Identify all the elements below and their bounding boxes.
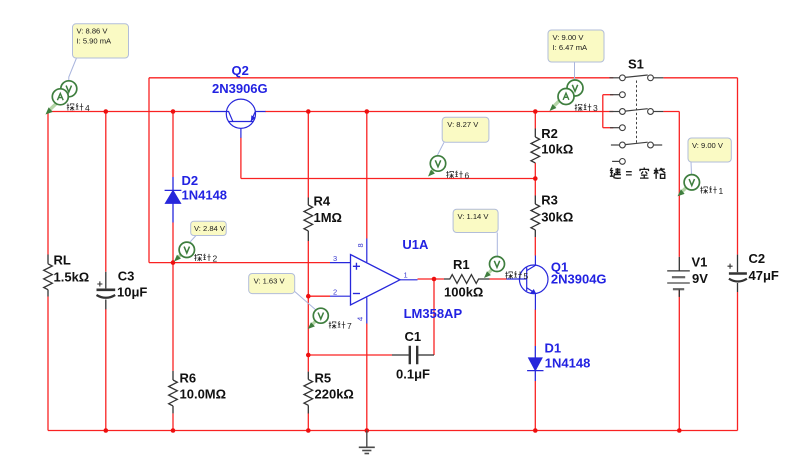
svg-text:C2: C2 <box>749 251 766 266</box>
wire op-amp pin4 to ground rail <box>366 324 368 431</box>
resistor RL <box>44 255 53 297</box>
svg-text:2: 2 <box>213 253 218 263</box>
svg-text:V: 8.27 V: V: 8.27 V <box>447 120 479 129</box>
svg-text:R3: R3 <box>541 193 558 208</box>
label probe name 探针2 <box>194 254 211 261</box>
svg-text:1N4148: 1N4148 <box>182 188 228 203</box>
resistor R1 <box>444 275 490 284</box>
svg-text:4: 4 <box>356 317 365 321</box>
svg-text:8: 8 <box>356 243 365 247</box>
resistor R3 <box>531 196 540 238</box>
wire D1 cathode to rail <box>534 381 536 431</box>
measurement box probe5 <box>453 209 498 232</box>
wire D2 anode to junction <box>172 223 174 263</box>
junction bottom rail R6 <box>171 428 176 433</box>
leader probe5 box <box>496 233 498 258</box>
pin 3 lead <box>330 262 351 264</box>
junction bottom rail ground <box>365 428 370 433</box>
wire top rail from S1 row1 to left corner <box>149 77 613 79</box>
diode D2 <box>165 177 182 223</box>
measurement box probe7 <box>249 274 295 294</box>
svg-text:V: 2.84 V: V: 2.84 V <box>194 224 226 233</box>
resistor R5 <box>304 372 313 414</box>
wire op-amp output to junction <box>418 278 445 280</box>
label key hint 键 = 空格 <box>610 168 665 179</box>
junction D2 top <box>171 109 176 114</box>
wire V1 branch bottom <box>678 290 680 431</box>
junction bottom rail R5 <box>306 428 311 433</box>
svg-text:2N3906G: 2N3906G <box>212 81 268 96</box>
label probe name 探针3 <box>575 104 592 111</box>
S1 row2 contact <box>610 94 620 96</box>
leader probe4 box <box>69 58 77 81</box>
S1 row6 contact <box>612 160 619 162</box>
svg-text:47μF: 47μF <box>749 268 779 283</box>
svg-text:0.1μF: 0.1μF <box>396 367 430 382</box>
wire pin2 horizontal <box>308 295 330 297</box>
junction R4 top <box>306 109 311 114</box>
wire main rail right portion y=111.5 <box>265 111 613 113</box>
leader probe2 box <box>188 236 196 245</box>
leader probe7 box <box>295 292 317 311</box>
svg-text:2: 2 <box>333 288 337 297</box>
wire left drop of top rail x=149 <box>148 78 150 263</box>
S1 row3 pole <box>610 111 620 113</box>
junction R2 top <box>533 109 538 114</box>
leader probe6 box <box>437 142 445 157</box>
wire S1 bracket vertical <box>602 95 604 128</box>
wire V1 branch top <box>678 112 680 257</box>
pin 8 lead <box>366 239 368 263</box>
svg-text:R2: R2 <box>541 126 558 141</box>
svg-text:9V: 9V <box>692 271 708 286</box>
battery V1 <box>667 257 690 297</box>
wire R5 top lead <box>307 355 309 372</box>
junction D2 anode / pin3 <box>171 260 176 265</box>
junction pin8 rail <box>365 109 370 114</box>
junction C3 top <box>104 109 109 114</box>
svg-text:1: 1 <box>719 186 724 196</box>
wire junction down to R6 <box>172 263 174 371</box>
pin 1 lead <box>400 279 418 281</box>
wire C1 right vertical feedback <box>433 279 435 355</box>
label probe name 探针5 <box>505 271 522 278</box>
switch S1 <box>610 75 664 164</box>
wire R6 bottom to rail <box>172 413 174 430</box>
svg-text:D1: D1 <box>545 341 562 356</box>
wire C3 branch top <box>105 112 107 272</box>
wire op-amp pin8 to rail <box>366 112 368 239</box>
S1 row5 pole <box>611 144 620 146</box>
svg-text:LM358AP: LM358AP <box>404 306 463 321</box>
resistor R4 <box>304 198 313 242</box>
leader probe3 box <box>574 62 576 80</box>
measurement box probe3 <box>548 30 604 62</box>
junction op-amp output node <box>432 277 437 282</box>
svg-text:R5: R5 <box>315 371 332 386</box>
wire C3 branch bottom <box>105 309 107 431</box>
svg-text:V: 8.86 V: V: 8.86 V <box>77 27 109 36</box>
svg-text:100kΩ: 100kΩ <box>444 285 483 300</box>
wire R2 top lead <box>534 112 536 129</box>
probe 探针7 (V) <box>308 308 329 329</box>
wire S1 row3 out <box>663 111 679 113</box>
measurement box probe1 <box>688 138 731 162</box>
diode D1 <box>527 346 543 381</box>
svg-text:V1: V1 <box>692 255 708 270</box>
wire Q2 base to R2-R3 node y=178.5 <box>241 178 535 180</box>
transistor Q1 <box>507 256 549 310</box>
probe 探针4 (V+A) <box>46 81 77 115</box>
svg-text:I: 5.90 mA: I: 5.90 mA <box>77 37 113 46</box>
wire main rail left portion y=111.5 <box>48 111 210 113</box>
svg-text:=: = <box>626 168 633 180</box>
wire R5 node horizontal to C1 <box>308 354 392 356</box>
S1 row1 pole <box>610 77 620 79</box>
label probe name 探针7 <box>329 321 346 328</box>
svg-text:30kΩ: 30kΩ <box>541 210 573 225</box>
svg-text:4: 4 <box>85 103 90 113</box>
svg-text:7: 7 <box>347 321 352 331</box>
wire R3 bottom to Q1 collector <box>534 237 536 256</box>
probe 探针6 (V) <box>428 156 446 177</box>
wire R4 bottom through pin2 node down to R5 node <box>307 241 309 355</box>
svg-text:3: 3 <box>333 254 337 263</box>
junction R5 top node <box>306 353 311 358</box>
svg-text:V: 9.00 V: V: 9.00 V <box>692 141 724 150</box>
svg-text:R6: R6 <box>180 371 197 386</box>
resistor R6 <box>169 371 178 414</box>
wire S1 row1 out to C2 branch <box>663 77 737 79</box>
svg-text:S1: S1 <box>628 57 644 72</box>
svg-text:1: 1 <box>404 271 408 280</box>
probe 探针3 (V+A) <box>550 80 584 111</box>
svg-text:220kΩ: 220kΩ <box>315 387 354 402</box>
wire bottom ground rail <box>48 430 738 432</box>
svg-text:RL: RL <box>54 253 71 268</box>
svg-text:V: 9.00 V: V: 9.00 V <box>553 33 585 42</box>
wire R5 bottom to rail <box>307 414 309 431</box>
svg-text:Q2: Q2 <box>232 63 249 78</box>
svg-text:V: 1.14 V: V: 1.14 V <box>458 212 490 221</box>
svg-text:3: 3 <box>593 103 598 113</box>
wire left branch RL bottom <box>47 297 49 431</box>
junction pin2 node <box>306 294 311 299</box>
op-amp U1A <box>330 239 418 324</box>
junction bottom rail C3 <box>104 428 109 433</box>
wire R3 top lead <box>534 179 536 196</box>
wire S1 bracket stub row4 <box>603 127 614 129</box>
svg-text:D2: D2 <box>182 173 199 188</box>
svg-text:2N3904G: 2N3904G <box>551 272 607 287</box>
junction bottom rail V1 <box>677 428 682 433</box>
svg-text:1N4148: 1N4148 <box>545 356 591 371</box>
wire D2 branch top <box>172 112 174 178</box>
wire C2 branch bottom <box>737 292 739 431</box>
capacitor C1 <box>392 346 434 364</box>
svg-text:10kΩ: 10kΩ <box>541 142 573 157</box>
S1 actuator dashed line <box>636 81 638 144</box>
svg-text:10.0MΩ: 10.0MΩ <box>180 387 227 402</box>
capacitor C3 <box>97 272 116 310</box>
transistor Q2 <box>210 99 266 138</box>
svg-text:C3: C3 <box>118 269 135 284</box>
measurement box probe6 <box>442 117 489 142</box>
svg-text:C1: C1 <box>405 329 422 344</box>
svg-text:1MΩ: 1MΩ <box>314 210 342 225</box>
wire Q2 base down <box>240 138 242 179</box>
wire C2 branch top <box>737 78 739 255</box>
svg-text:U1A: U1A <box>402 237 429 252</box>
junction bottom rail D1 <box>533 428 538 433</box>
wire S1 bracket stub row2 <box>603 94 614 96</box>
svg-text:R1: R1 <box>453 257 470 272</box>
label probe name 探针1 <box>700 186 717 193</box>
pin number labels <box>333 243 408 321</box>
wire left branch RL top <box>47 112 49 255</box>
svg-text:5: 5 <box>524 271 529 281</box>
wire R2 bottom lead <box>534 163 536 179</box>
svg-text:I: 6.47 mA: I: 6.47 mA <box>553 43 589 52</box>
wire R4 branch top <box>307 112 309 198</box>
probe 探针1 (V) <box>678 175 700 197</box>
wire jog into D2 anode junction <box>149 262 173 264</box>
pin 2 lead <box>330 295 351 297</box>
resistor R2 <box>531 129 540 163</box>
wire Q1 emitter to D1 <box>534 310 536 347</box>
label probe name 探针6 <box>446 171 463 178</box>
S1 row4 contact <box>610 127 620 129</box>
probe 探针2 (V) <box>174 242 195 261</box>
capacitor C2 <box>728 255 747 292</box>
svg-text:10μF: 10μF <box>117 285 147 300</box>
pin 4 lead <box>366 297 368 323</box>
wire pin3 net horizontal y=262.6 <box>173 262 330 264</box>
wire R1 right to Q1 base <box>490 278 507 280</box>
svg-text:V: 1.63 V: V: 1.63 V <box>254 276 286 285</box>
svg-text:R4: R4 <box>314 194 331 209</box>
svg-text:1.5kΩ: 1.5kΩ <box>54 270 90 285</box>
junction R2-R3 node <box>533 176 538 181</box>
ground <box>359 431 375 454</box>
svg-text:6: 6 <box>465 170 470 180</box>
probe 探针5 (V) <box>484 257 505 279</box>
label probe name 探针4 <box>67 103 84 110</box>
measurement box probe2 <box>191 221 227 235</box>
measurement box probe4 <box>73 24 129 58</box>
leader probe1 box <box>690 162 693 175</box>
